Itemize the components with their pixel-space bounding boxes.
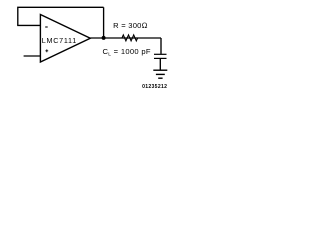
svg-text:R = 300Ω: R = 300Ω — [113, 21, 148, 30]
capacitor CL bottom plate — [154, 57, 167, 59]
resistor R zigzag — [117, 35, 142, 41]
ground — [153, 70, 167, 78]
wire noninverting input — [24, 55, 41, 57]
wire feedback top — [18, 7, 104, 25]
op-amp noninverting pin plus sign — [45, 49, 48, 52]
capacitor CL top plate — [154, 53, 167, 55]
wire output — [90, 37, 161, 39]
svg-text:CL = 1000 pF: CL = 1000 pF — [103, 47, 151, 57]
svg-text:01235212: 01235212 — [142, 84, 167, 90]
wire capacitor to ground — [159, 58, 161, 70]
svg-text:LMC7111: LMC7111 — [42, 36, 77, 45]
node output junction dot — [102, 36, 106, 40]
op-amp U1 triangle — [40, 15, 90, 63]
op-amp inverting pin minus sign — [45, 26, 48, 28]
wire feedback right vertical — [103, 7, 105, 38]
wire resistor to capacitor — [160, 38, 162, 54]
wire inverting input — [17, 24, 40, 26]
